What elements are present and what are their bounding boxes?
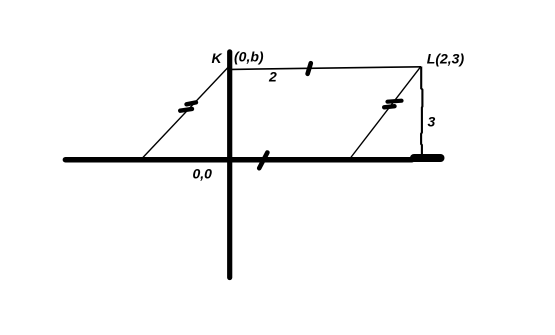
parallelogram right slanted side [351,67,421,158]
svg-text:K: K [212,50,223,66]
x-axis [65,157,412,163]
tick mark on top side [308,63,311,74]
vertical segment below L (wobbly hand-drawn line) [421,67,422,158]
right side lower double tick [384,106,394,107]
parallelogram top side from (0,b) to L(2,3) [232,67,421,70]
parallelogram left slanted side [142,68,228,159]
svg-text:L(2,3): L(2,3) [427,51,465,67]
left side lower double tick [180,109,192,111]
x-axis thick right end segment [414,154,441,162]
right side upper double tick [388,101,402,102]
svg-text:0,0: 0,0 [193,166,213,182]
y-axis [227,52,232,278]
svg-text:(0,b): (0,b) [234,49,264,65]
svg-text:3: 3 [428,114,436,130]
svg-text:2: 2 [268,69,277,85]
left side upper double tick [187,102,197,104]
tick mark on x-axis [259,153,267,169]
